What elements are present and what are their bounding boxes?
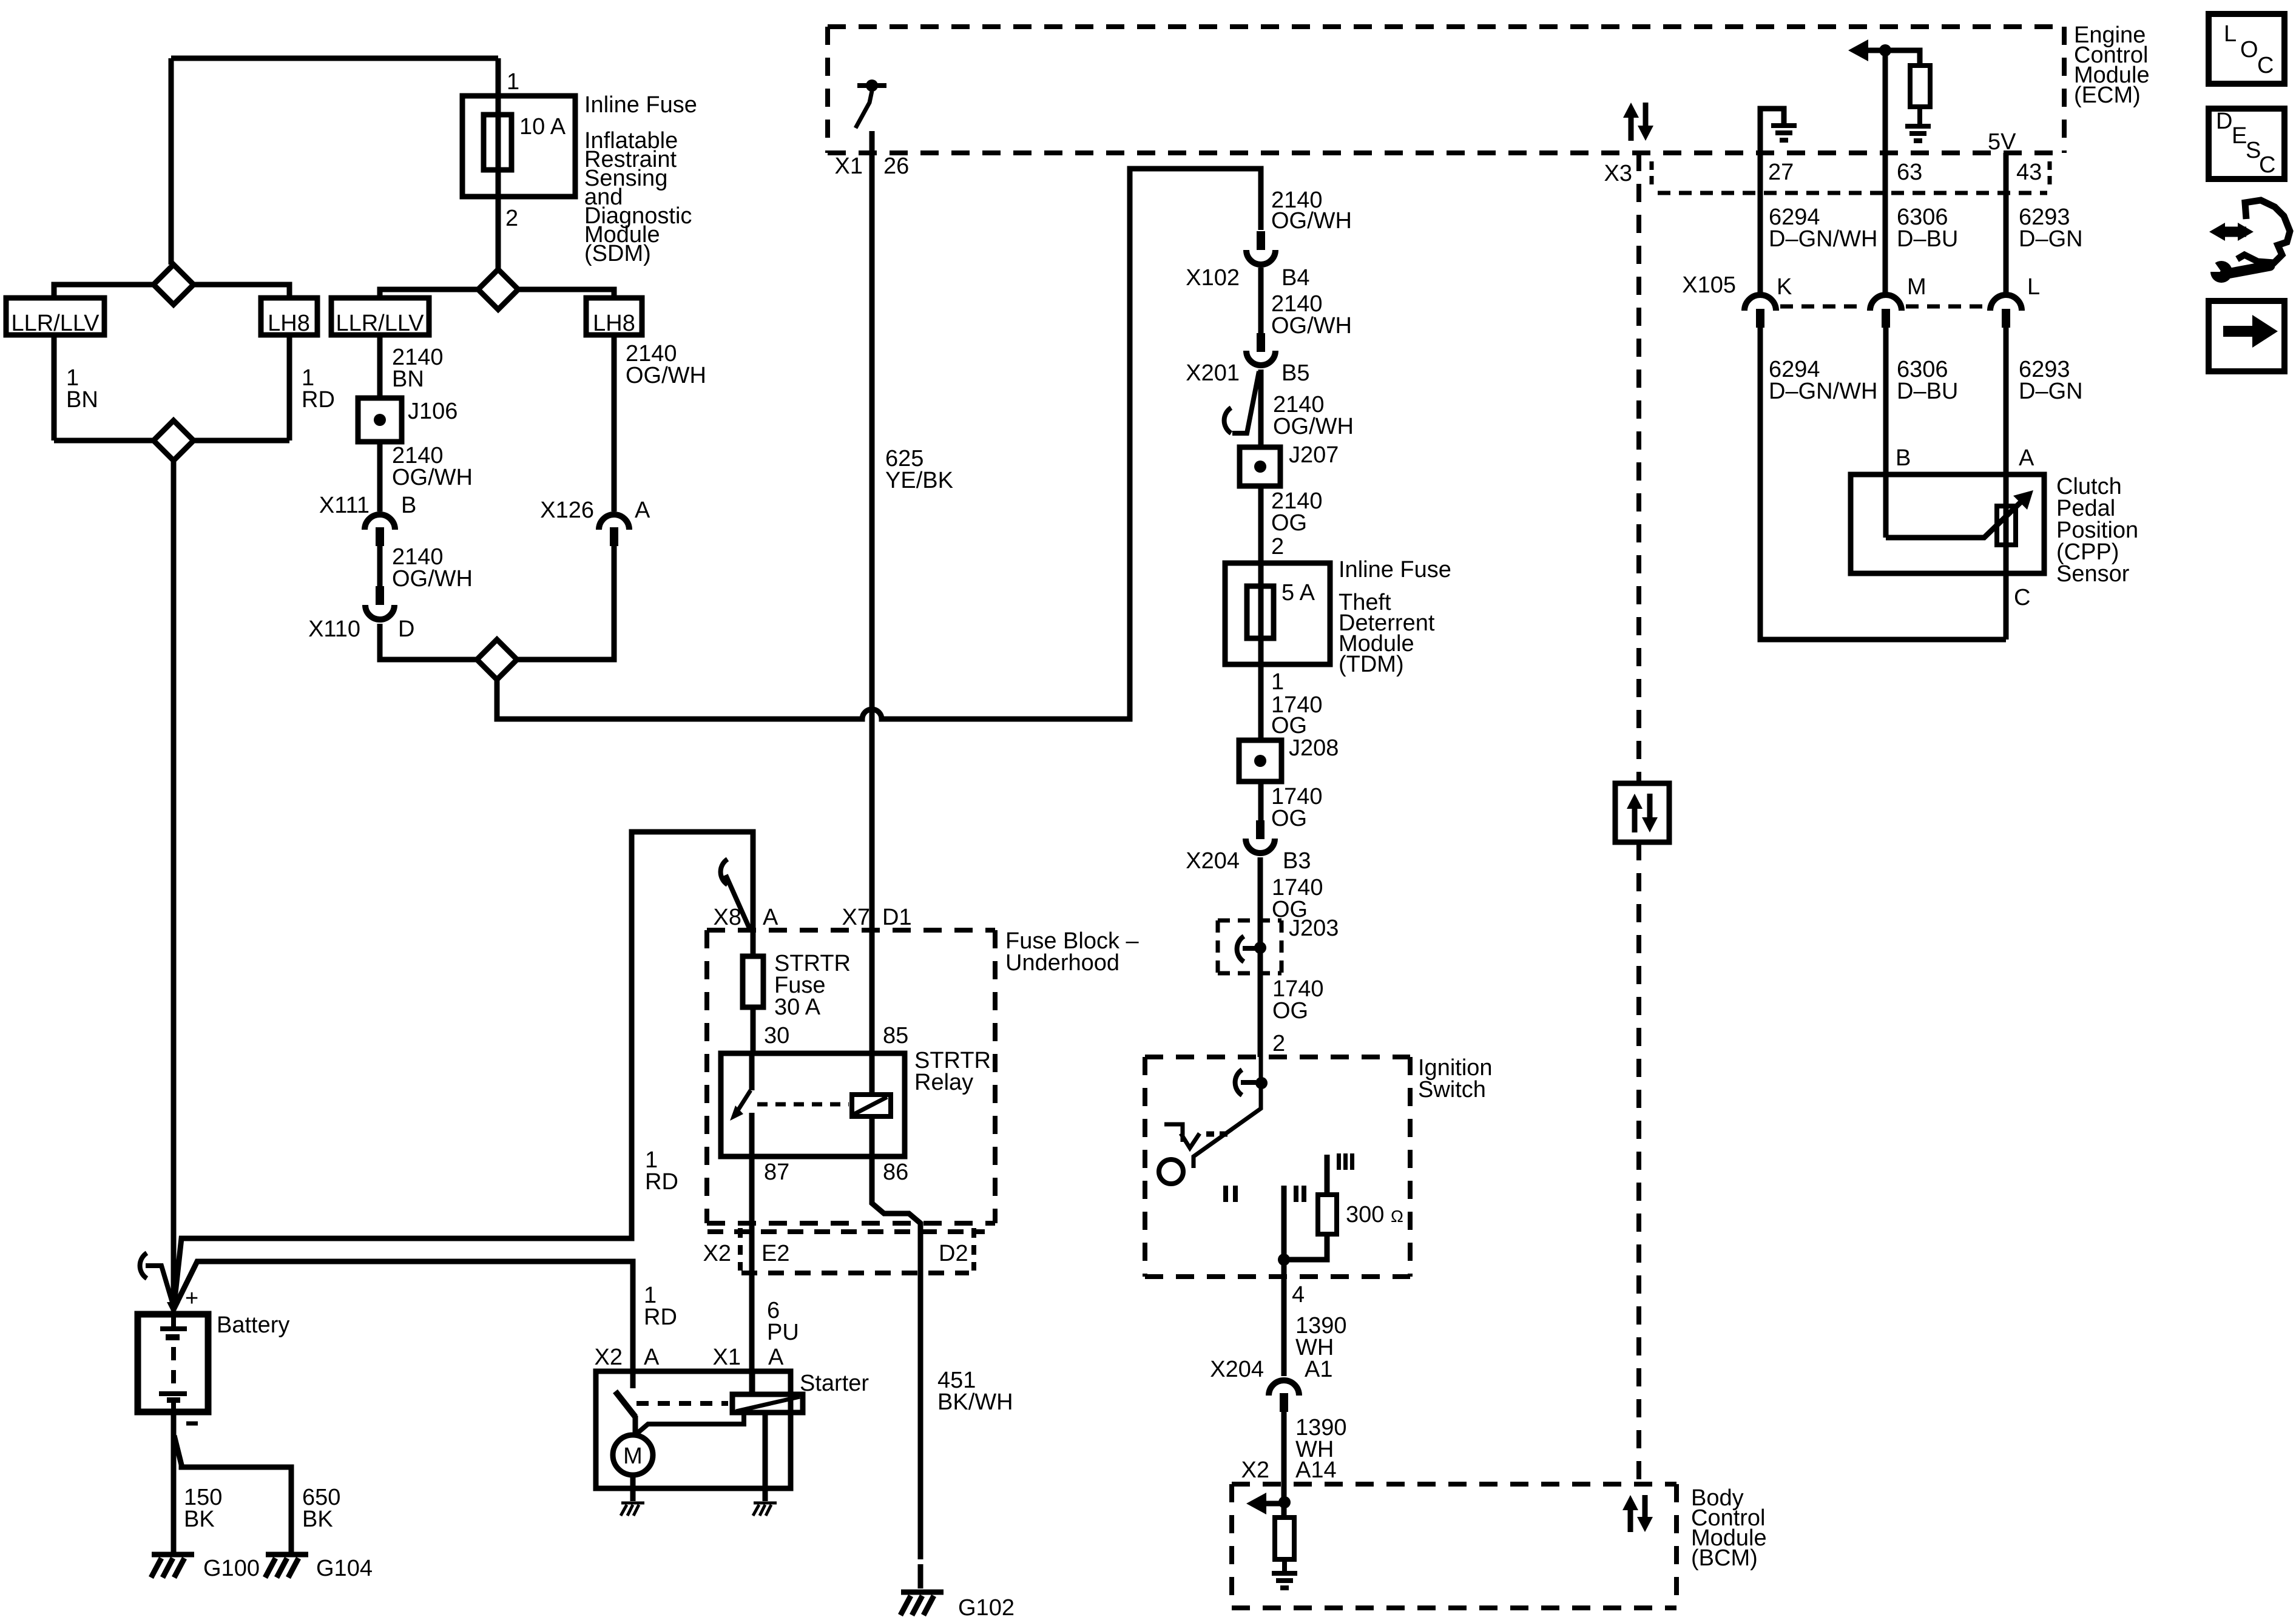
icon: diagnostic wrench with arrows (2237, 200, 2290, 263)
option box LLR/LLV (battery side) (6, 298, 104, 335)
svg-text:D2: D2 (939, 1241, 968, 1266)
wire 2140 BN from LLR/LLV 2 (377, 335, 383, 398)
svg-text:+: + (185, 1286, 198, 1311)
X105 pin M (1882, 309, 1890, 328)
svg-text:1RD: 1RD (645, 1147, 678, 1195)
ECM dashed bottom border (828, 150, 2064, 155)
svg-text:InflatableRestraintSensingandD: InflatableRestraintSensingandDiagnosticM… (584, 128, 692, 266)
CPP wiper arrowhead (2013, 490, 2033, 510)
svg-text:B4: B4 (1281, 265, 1309, 291)
BCM input arrow (1262, 1501, 1285, 1507)
svg-text:D1: D1 (882, 905, 912, 930)
svg-text:6294D–GN/WH: 6294D–GN/WH (1769, 204, 1877, 252)
svg-text:85: 85 (883, 1023, 908, 1048)
ECM internal: signal arrow and pull-up for pin 63 (1848, 39, 1868, 61)
junction J208 dot (1254, 755, 1266, 767)
starter coil link to motor (636, 1413, 744, 1434)
svg-text:X204: X204 (1210, 1357, 1264, 1382)
ECM internal node dot (pin63 line) (1879, 44, 1891, 56)
wire 1740 OG X204 to ignition switch (1258, 857, 1263, 1057)
wire through TDM fuse (1258, 563, 1264, 664)
svg-text:1740OG: 1740OG (1272, 976, 1324, 1024)
svg-text:43: 43 (2016, 160, 2042, 185)
svg-text:Inline Fuse: Inline Fuse (1339, 557, 1451, 582)
wire: BN to merge diamond (54, 438, 154, 444)
node: merge diamond to battery (154, 420, 194, 461)
svg-text:K: K (1777, 274, 1792, 300)
wire 150 BK battery to G100 (171, 1412, 177, 1554)
junction J207 dot (1254, 461, 1266, 473)
STRTR fuse element (743, 956, 763, 1007)
X3 connector dashed row (1658, 191, 2047, 195)
Battery box (138, 1314, 208, 1412)
starter solenoid coil (732, 1394, 803, 1413)
svg-text:X105: X105 (1682, 272, 1736, 298)
svg-text:G100: G100 (203, 1556, 260, 1581)
svg-text:J203: J203 (1289, 916, 1339, 941)
label battery minus (186, 1422, 198, 1426)
BCM internal resistor (1275, 1517, 1294, 1559)
svg-text:X7: X7 (842, 905, 870, 930)
svg-text:C: C (2014, 585, 2030, 610)
wire: diamond to LLR/LLV option box 1 (54, 285, 154, 298)
svg-text:ClutchPedalPosition(CPP)Sensor: ClutchPedalPosition(CPP)Sensor (2056, 474, 2138, 587)
connector X126 cavity A (599, 515, 629, 530)
svg-text:IgnitionSwitch: IgnitionSwitch (1418, 1055, 1493, 1102)
wire: X110 D to merge diamond (380, 624, 477, 660)
svg-text:L: L (2027, 274, 2040, 300)
svg-text:1: 1 (507, 69, 519, 95)
svg-text:X126: X126 (540, 498, 594, 523)
inline fuse 10A: wire from top horizontal into fuse (496, 58, 501, 269)
option box LLR/LLV (SDM side) (331, 298, 429, 335)
wire 1740 OG J208 to X204 (1258, 781, 1264, 820)
ignition switch contact III with 300 ohm resistor (1325, 1155, 1330, 1195)
svg-text:650BK: 650BK (302, 1485, 340, 1532)
connector X105 cavity M (1870, 295, 1902, 311)
svg-text:G102: G102 (958, 1595, 1015, 1617)
wire 2140 OG to TDM fuse (1258, 486, 1264, 563)
wire: battery feed top horizontal (171, 56, 498, 61)
svg-text:BodyControlModule(BCM): BodyControlModule(BCM) (1691, 1485, 1767, 1571)
connector X110 pin (376, 586, 384, 605)
ignition switch attachment hook (1235, 1070, 1242, 1095)
svg-text:1RD: 1RD (644, 1283, 677, 1330)
svg-text:LH8: LH8 (268, 311, 310, 336)
icon box LOC (2209, 14, 2284, 84)
inline fuse box (TDM 5A) (1225, 563, 1330, 664)
svg-text:1740OG: 1740OG (1271, 692, 1323, 738)
icon box right arrow (2209, 301, 2284, 371)
wire: X126 A to merge diamond (517, 546, 614, 660)
wire 2140 OG/WH below J106 (377, 442, 383, 511)
X105 pin L (2002, 309, 2010, 328)
wire 2140 OG/WH X201 to J207 (1258, 370, 1264, 447)
wire 6 PU relay 87 down to starter (749, 1156, 755, 1393)
svg-text:E: E (2232, 123, 2247, 149)
svg-text:2: 2 (1272, 1031, 1285, 1056)
svg-text:2140OG/WH: 2140OG/WH (1273, 392, 1354, 439)
svg-text:2: 2 (1271, 534, 1284, 559)
X3 row right tick (2048, 161, 2052, 189)
ECM internal ground (pin 27) (1771, 123, 1797, 128)
label II (left) (1223, 1186, 1228, 1202)
wire 2140 OG/WH from LH8 2 (612, 335, 617, 511)
svg-text:2140OG/WH: 2140OG/WH (1271, 291, 1352, 339)
svg-text:5V: 5V (1988, 129, 2016, 155)
ECM internal wire resistor to ground (1917, 107, 1922, 126)
svg-text:D: D (398, 616, 414, 642)
fuse element 10A (484, 115, 512, 170)
wire 6293 D-GN pin43 to X105 L (2004, 153, 2009, 294)
Engine Control Module (ECM) dashed box border (828, 27, 2064, 153)
svg-text:6306D–BU: 6306D–BU (1897, 357, 1958, 404)
svg-text:6PU: 6PU (767, 1298, 799, 1345)
starter motor ground wire (630, 1475, 636, 1501)
connector X105 cavity K (1744, 295, 1776, 311)
wire: diamond to LLR/LLV option box 2 (380, 289, 478, 298)
svg-text:X1: X1 (713, 1345, 741, 1370)
svg-text:A: A (635, 498, 650, 523)
ignition switch output dot (1278, 1254, 1290, 1266)
ECM internal switch at X1-26 (857, 83, 886, 88)
connector X111 pin (376, 527, 384, 546)
svg-text:4: 4 (1292, 1282, 1305, 1308)
serial data up/down arrows in box (1632, 806, 1638, 832)
wire 1 RD from LH8 box down (287, 335, 292, 441)
node: merge diamond of SDM branches (477, 640, 517, 680)
wire 6306 D-BU X105-M down to CPP B (1883, 328, 1889, 538)
battery plates (160, 1314, 187, 1329)
svg-text:M: M (623, 1443, 643, 1469)
svg-text:A: A (768, 1345, 784, 1370)
wire: RD to merge diamond (194, 438, 289, 444)
connector X201 pin (1257, 333, 1265, 352)
connector X126 pin (610, 527, 618, 546)
svg-text:A14: A14 (1295, 1457, 1337, 1483)
svg-text:LH8: LH8 (593, 311, 635, 336)
svg-text:B: B (401, 493, 416, 518)
fuse element 5A (1247, 586, 1274, 638)
Ignition Switch dashed box (1145, 1057, 1410, 1277)
BCM input node dot (1278, 1496, 1291, 1508)
svg-text:TheftDeterrentModule(TDM): TheftDeterrentModule(TDM) (1339, 590, 1435, 677)
svg-text:STRTRFuse30 A: STRTRFuse30 A (774, 951, 851, 1020)
connector X102 pin (1257, 231, 1265, 250)
connector X102 cavity B4 (1246, 250, 1275, 265)
J203 attachment hook (1237, 936, 1244, 962)
Clutch Pedal Position sensor box (1851, 474, 2044, 573)
battery center dashed (171, 1347, 176, 1391)
starter contact blade (615, 1391, 635, 1417)
svg-text:X3: X3 (1604, 161, 1632, 186)
svg-text:J208: J208 (1289, 735, 1339, 761)
CPP potentiometer element (1997, 506, 2016, 545)
svg-text:L: L (2224, 21, 2237, 47)
STRTR relay box (721, 1053, 905, 1156)
svg-text:C: C (2257, 53, 2274, 78)
wire 625 YE/BK from ECM X1-26 down to relay 85 (869, 131, 875, 1053)
starter motor circle (613, 1435, 653, 1475)
wire 1740 OG TDM to J208 (1258, 664, 1264, 740)
wire STRTR fuse to relay 30 (751, 1007, 756, 1053)
node: option diamond (LLR/LLV vs LH8 upper-left) (154, 265, 194, 305)
svg-text:1RD: 1RD (302, 365, 335, 413)
svg-text:1390WH: 1390WH (1295, 1313, 1347, 1360)
svg-text:A: A (644, 1345, 660, 1370)
wire 1390 WH X204 to BCM (1281, 1412, 1287, 1517)
wire 1 BN from LLR/LLV box down (52, 335, 57, 441)
svg-text:Fuse Block –Underhood: Fuse Block –Underhood (1005, 928, 1140, 976)
X2 row right tick (971, 1228, 976, 1271)
wire: battery positive main vertical (171, 461, 177, 1311)
connector X110 cavity D (365, 605, 394, 619)
svg-text:Starter: Starter (800, 1371, 869, 1396)
serial data dashed line (ECM to symbol box) (1636, 153, 1641, 783)
svg-text:1740OG: 1740OG (1271, 784, 1323, 831)
Body Control Module dashed box (1232, 1484, 1676, 1608)
X3 row left tick (1650, 161, 1654, 189)
relay actuation dashed link (757, 1102, 849, 1107)
wire 2140 OG/WH trunk: diamond down, right with hop, up, right, down to X102 (497, 169, 1261, 719)
starter motor ground (621, 1502, 644, 1505)
node: option diamond below 10A fuse (478, 269, 518, 309)
svg-text:EngineControlModule(ECM): EngineControlModule(ECM) (2074, 22, 2150, 108)
ECM serial data up/down arrows (1629, 115, 1634, 141)
svg-text:X111: X111 (319, 493, 370, 518)
svg-text:X201: X201 (1186, 360, 1240, 386)
junction J106 box (358, 398, 402, 442)
CPP wiper wire from pin B (1886, 501, 2022, 538)
battery positive terminal arrow (167, 1302, 180, 1315)
wire 6293 D-GN X105-L down to CPP A (2004, 328, 2009, 640)
wire 6294 D-GN/WH pin27 to X105 K (1758, 153, 1763, 294)
BCM serial data up/down arrows (1628, 1507, 1633, 1532)
ignition switch output contact II (1281, 1186, 1287, 1260)
relay coil wire 85-86 (869, 1053, 875, 1156)
svg-text:X102: X102 (1186, 265, 1240, 291)
svg-text:2140OG/WH: 2140OG/WH (626, 341, 706, 388)
svg-text:A: A (763, 905, 778, 930)
svg-text:300 Ω: 300 Ω (1346, 1202, 1403, 1227)
svg-text:D: D (2216, 109, 2232, 134)
svg-text:X204: X204 (1186, 848, 1240, 874)
connector X201 cavity B5 (1246, 351, 1275, 365)
serial data dashed line (box to BCM) (1636, 842, 1641, 1484)
ignition switch contact circle (1159, 1160, 1183, 1184)
svg-text:X8: X8 (714, 905, 741, 930)
svg-text:B3: B3 (1283, 848, 1311, 874)
wire 2140 OG/WH X102-X201 (1258, 268, 1264, 333)
ECM internal resistor (1910, 66, 1930, 107)
svg-text:G104: G104 (316, 1556, 373, 1581)
wire 6294 D-GN/WH X105-K down to CPP C (1760, 328, 2006, 640)
ground G104 (266, 1552, 308, 1558)
svg-text:A1: A1 (1305, 1357, 1332, 1382)
svg-text:26: 26 (883, 154, 909, 179)
connector X111 cavity B (365, 515, 395, 530)
wrench silhouette (2210, 261, 2232, 283)
ignition switch lever (1194, 1057, 1261, 1168)
junction J207 box (1240, 447, 1280, 486)
junction J203 dashed box (1218, 920, 1281, 973)
svg-text:2140OG/WH: 2140OG/WH (392, 544, 473, 592)
serial data two-way symbol box (1615, 783, 1669, 842)
dashed tail of 451 BK/WH at G102 (918, 1564, 923, 1588)
ECM internal ground stub for pin 27 (1760, 109, 1784, 153)
relay coil diagonal (854, 1097, 887, 1114)
svg-text:1: 1 (1271, 669, 1284, 695)
starter solenoid ground (754, 1502, 777, 1505)
X105 pin K (1756, 309, 1764, 328)
connector X204 pin B3 (1256, 820, 1264, 839)
ECM internal ground (resistor) (1905, 124, 1931, 129)
connector X105 cavity L (1990, 295, 2022, 311)
wire 1 RD battery to fuse block (up-over route) (174, 832, 753, 1309)
svg-text:2140OG/WH: 2140OG/WH (392, 443, 473, 490)
X8 attachment hook (721, 859, 728, 885)
wire 1390 WH ignition to X204 A1 (1281, 1260, 1287, 1376)
svg-text:6306D–BU: 6306D–BU (1897, 204, 1958, 252)
BCM internal ground (1272, 1571, 1297, 1576)
wire: diamond to LH8 option box 1 (194, 285, 289, 298)
option box LH8 (SDM side) (586, 298, 642, 335)
svg-text:150BK: 150BK (184, 1485, 222, 1532)
junction J203 dot (1254, 942, 1266, 954)
svg-text:27: 27 (1768, 160, 1794, 185)
svg-text:X2: X2 (703, 1241, 731, 1266)
wire 650 BK battery to G104 (174, 1436, 291, 1554)
svg-text:6294D–GN/WH: 6294D–GN/WH (1769, 357, 1877, 404)
X201 attachment hook (1224, 408, 1231, 433)
svg-text:LLR/LLV: LLR/LLV (11, 311, 100, 336)
svg-text:2140OG: 2140OG (1271, 488, 1323, 536)
starter X2-A wire stub (630, 1372, 636, 1388)
starter solenoid ground wire (763, 1413, 768, 1501)
wire 2140 OG/WH between X111 and X110 (377, 546, 383, 586)
svg-text:O: O (2240, 37, 2258, 62)
svg-text:2140OG/WH: 2140OG/WH (1271, 187, 1352, 234)
wire: left vertical from top horizontal down to splice diamond (169, 58, 174, 265)
svg-text:451BK/WH: 451BK/WH (937, 1368, 1013, 1415)
svg-text:X2: X2 (595, 1345, 623, 1370)
svg-text:625YE/BK: 625YE/BK (885, 446, 953, 493)
svg-text:30: 30 (764, 1023, 789, 1048)
connector X204 cavity A1 (1269, 1380, 1299, 1396)
svg-text:10 A: 10 A (519, 114, 566, 140)
svg-text:Battery: Battery (217, 1312, 289, 1338)
ground G102 (901, 1590, 944, 1595)
Fuse Block Underhood dashed box (707, 930, 995, 1223)
wire X1-A into coil (750, 1372, 755, 1394)
connector X204 cavity B3 (1246, 839, 1275, 853)
wire: diamond to LH8 option box 2 (518, 289, 614, 298)
svg-text:A: A (2019, 445, 2034, 471)
svg-text:E2: E2 (761, 1241, 789, 1266)
svg-text:5 A: 5 A (1281, 580, 1315, 606)
svg-text:J207: J207 (1289, 442, 1339, 468)
svg-text:STRTRRelay: STRTRRelay (914, 1048, 991, 1095)
connector X204 pin A1 (1280, 1393, 1288, 1412)
wire 1 RD battery to starter X2-A (174, 1261, 633, 1372)
icon box DESC (2209, 109, 2284, 179)
wire 451 BK/WH relay 86 to G102 (872, 1156, 920, 1559)
starter motor feed wire (633, 1416, 638, 1435)
ignition 300 ohm resistor (1318, 1195, 1337, 1234)
ground G100 (152, 1552, 194, 1558)
svg-text:C: C (2259, 152, 2275, 178)
BCM wire resistor to ground (1282, 1559, 1287, 1573)
option box LH8 (battery side) (261, 298, 317, 335)
svg-text:1BN: 1BN (66, 365, 98, 413)
junction J106 dot (374, 414, 386, 426)
svg-text:J106: J106 (408, 399, 458, 424)
ignition switch feed dot (1255, 1077, 1268, 1089)
svg-text:B5: B5 (1281, 360, 1309, 386)
relay switch contact (749, 1053, 755, 1090)
svg-text:2: 2 (505, 206, 518, 231)
ECM internal wire from node down to pin 63 (1883, 50, 1888, 294)
svg-text:X2: X2 (1241, 1457, 1269, 1483)
svg-text:6293D–GN: 6293D–GN (2019, 357, 2083, 404)
svg-text:X110: X110 (308, 616, 360, 642)
X105 dashed row K-M (1780, 305, 1865, 309)
svg-text:1390WH: 1390WH (1295, 1415, 1347, 1462)
starter solenoid dashed link (636, 1401, 728, 1406)
fuse block X2 output row top dashes (707, 1229, 985, 1234)
svg-text:63: 63 (1897, 160, 1922, 185)
svg-text:6293D–GN: 6293D–GN (2019, 204, 2083, 252)
svg-text:86: 86 (883, 1160, 908, 1185)
svg-text:Inline Fuse: Inline Fuse (584, 92, 697, 118)
ECM switch pivot dot (866, 79, 878, 92)
svg-text:87: 87 (764, 1160, 789, 1185)
relay coil box (852, 1095, 891, 1116)
svg-text:B: B (1896, 445, 1911, 471)
svg-text:M: M (1907, 274, 1926, 300)
svg-text:X1: X1 (835, 154, 863, 179)
svg-text:2140BN: 2140BN (392, 345, 444, 392)
Starter box (596, 1371, 791, 1488)
junction J208 box (1239, 740, 1281, 781)
inline fuse box (SDM 10A) (462, 96, 575, 197)
X105 dashed row M-L (1906, 305, 1985, 309)
battery positive attachment hook (140, 1253, 147, 1278)
fuse block X2 output row bottom dashes (741, 1271, 969, 1275)
ignition switch position I mark (1164, 1124, 1183, 1142)
svg-text:LLR/LLV: LLR/LLV (336, 311, 424, 336)
X2 row left tick (738, 1228, 743, 1271)
